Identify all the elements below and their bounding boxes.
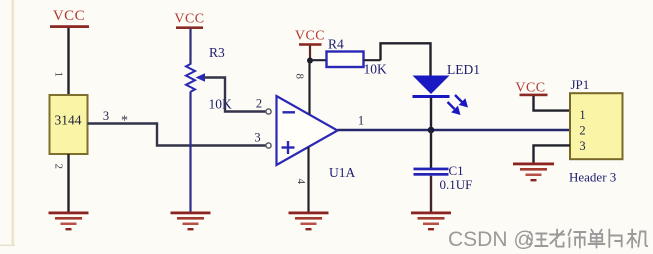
header JP1 (570, 93, 623, 159)
svg-text:2: 2 (256, 97, 262, 111)
svg-text:VCC: VCC (515, 81, 545, 96)
wire VCC to 3144 pin1 (67, 28, 69, 95)
power VCC (3144 supply) (50, 8, 89, 28)
char ji (627, 230, 647, 248)
svg-text:LED1: LED1 (447, 62, 480, 77)
wire LED1 cathode to output node (430, 98, 432, 130)
wire VCC to R3 top (189, 29, 191, 65)
svg-text:3: 3 (254, 131, 260, 145)
svg-text:R4: R4 (328, 37, 344, 52)
LED LED1 (413, 76, 469, 116)
svg-text:2: 2 (53, 164, 65, 170)
hall sensor 3144 (50, 95, 88, 154)
svg-text:10K: 10K (364, 62, 388, 77)
svg-text:1: 1 (358, 114, 364, 128)
wire header pin3 to ground (534, 145, 571, 163)
wire 3144 pin2 to ground (67, 154, 69, 212)
ground (under 3144) (49, 212, 89, 231)
svg-text:C1: C1 (449, 163, 464, 178)
ground (under header) (513, 163, 554, 182)
svg-text:U1A: U1A (329, 165, 355, 180)
svg-text:3144: 3144 (55, 113, 82, 128)
power VCC (header supply) (515, 81, 547, 97)
char shi (568, 230, 585, 248)
svg-text:0.1UF: 0.1UF (440, 177, 473, 192)
power VCC (op-amp supply) (295, 29, 325, 46)
wire node to C1 (430, 130, 432, 168)
char wang (529, 232, 548, 247)
svg-text:*: * (121, 114, 128, 129)
svg-text:VCC: VCC (295, 29, 325, 44)
pin circle op-amp pin3 (266, 143, 271, 148)
wire C1 to ground (430, 176, 432, 212)
svg-text:10K: 10K (209, 97, 233, 112)
ground (under R3) (171, 212, 211, 231)
wire VCC to header pin1 (534, 96, 571, 111)
capacitor C1 (414, 168, 449, 176)
svg-text:1: 1 (579, 108, 585, 122)
ground (under op-amp) (289, 212, 329, 231)
resistor R4 (310, 52, 381, 68)
wire R4 to LED1 anode (381, 43, 431, 76)
potentiometer R3 (186, 64, 205, 92)
svg-text:2: 2 (579, 124, 585, 138)
wire VCC bar to node (309, 46, 311, 62)
svg-text:1: 1 (53, 72, 65, 78)
pin circle op-amp pin2 (266, 109, 271, 114)
svg-text:8: 8 (294, 74, 306, 80)
node output junction (428, 127, 435, 134)
svg-text:4: 4 (295, 179, 307, 185)
svg-text:VCC: VCC (174, 12, 204, 27)
wire R3 wiper to op-amp - input (205, 78, 267, 112)
watermark chinese glyphs (529, 230, 647, 248)
char dan (588, 230, 604, 248)
ground (under C1) (411, 212, 451, 231)
char lao (550, 230, 564, 247)
power VCC (R3 supply) (174, 12, 204, 30)
wire op-amp output to header pin2 (338, 129, 571, 131)
svg-text:CSDN @: CSDN @ (448, 228, 535, 251)
svg-text:3: 3 (103, 109, 109, 123)
wire op-amp pin 4 to ground (307, 147, 309, 212)
wire 3144 pin3 to op-amp + input (88, 124, 267, 146)
svg-text:JP1: JP1 (571, 77, 590, 92)
node VCC junction (307, 58, 313, 64)
svg-text:R3: R3 (209, 45, 225, 60)
svg-text:VCC: VCC (53, 8, 85, 24)
op-amp U1A (277, 96, 338, 165)
svg-text:Header 3: Header 3 (569, 170, 616, 185)
char pian (609, 230, 621, 248)
wire R3 bottom to ground (189, 92, 191, 213)
wire op-amp pin 8 (308, 61, 310, 115)
svg-text:3: 3 (579, 139, 585, 153)
